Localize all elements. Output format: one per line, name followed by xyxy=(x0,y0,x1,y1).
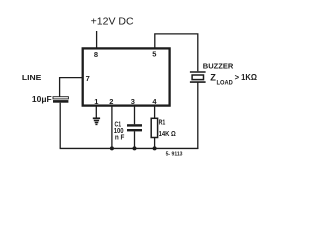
node R1 14KΩ value label xyxy=(159,117,176,138)
svg-text:R1: R1 xyxy=(159,117,166,126)
wire buzzer down to bottom rail xyxy=(197,82,199,149)
wire capacitor to bottom rail xyxy=(59,103,61,149)
node C1 100nF value label xyxy=(114,120,125,142)
svg-text:5- 9113: 5- 9113 xyxy=(166,152,184,158)
wire pin 4 to resistor R1 xyxy=(154,106,156,119)
junction pin 2 / rail xyxy=(110,146,114,150)
op-amp U1 (IC body) xyxy=(83,48,170,105)
svg-text:Z: Z xyxy=(210,72,216,82)
node Z_LOAD > 1KΩ label xyxy=(210,72,257,86)
svg-text:LOAD: LOAD xyxy=(217,79,234,86)
wire resistor R1 to bottom rail xyxy=(154,138,156,149)
svg-text:3: 3 xyxy=(131,97,135,106)
wire pin 5 to buzzer xyxy=(155,34,198,71)
svg-text:BUZZER: BUZZER xyxy=(203,62,234,71)
wire supply to pin 8 xyxy=(96,31,98,48)
svg-text:14K Ω: 14K Ω xyxy=(159,129,176,138)
svg-text:1: 1 xyxy=(94,97,98,106)
svg-text:8: 8 xyxy=(94,50,98,59)
buzzer BZ1 (piezo symbol) xyxy=(190,72,206,82)
wire pin 2 to bottom rail xyxy=(111,106,113,149)
wire pin 1 to ground xyxy=(95,106,97,118)
svg-text:+12V DC: +12V DC xyxy=(91,17,134,28)
resistor R1 xyxy=(151,118,157,137)
svg-text:> 1KΩ: > 1KΩ xyxy=(235,73,258,82)
junction pin 3 branch / rail xyxy=(133,146,137,150)
wire bottom rail xyxy=(60,147,199,149)
svg-text:10μF: 10μF xyxy=(32,95,52,104)
svg-text:n F: n F xyxy=(115,133,125,142)
ground xyxy=(93,118,100,124)
wire pin 3 to capacitor C1 xyxy=(134,106,136,125)
wire LINE input to pin 7 xyxy=(60,78,83,97)
svg-text:LINE: LINE xyxy=(22,73,42,82)
svg-text:2: 2 xyxy=(109,97,113,106)
junction pin 4 branch / rail xyxy=(153,146,157,150)
capacitor 10μF (electrolytic) xyxy=(53,97,68,102)
svg-text:7: 7 xyxy=(86,74,90,83)
svg-text:5: 5 xyxy=(152,50,156,59)
wire capacitor C1 to bottom rail xyxy=(134,131,136,148)
capacitor C1 xyxy=(127,125,142,130)
